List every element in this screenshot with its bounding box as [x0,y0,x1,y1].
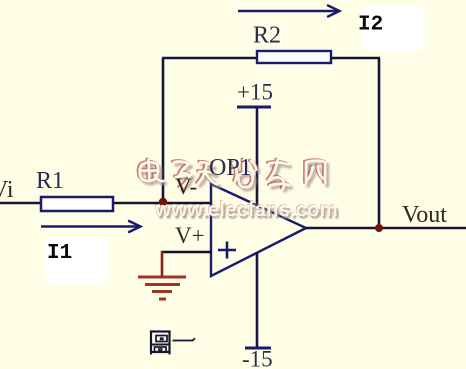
svg-text:www.elecfans.com: www.elecfans.com [154,198,338,221]
junction node at inverting input [159,198,167,206]
wire R1 to inverting input [113,202,212,205]
svg-text:Vi: Vi [0,177,14,203]
watermark url text [154,198,340,224]
figure label dash stroke [173,338,196,340]
svg-text:-15: -15 [242,347,273,369]
power +15 symbol bar [237,106,271,109]
svg-text:V+: V+ [175,223,205,248]
svg-text:R2: R2 [253,23,281,49]
wire feedback top to R2 [162,57,259,60]
svg-text:OP1: OP1 [209,155,252,181]
white patch behind I1 label [45,237,107,283]
resistor R2 [257,51,331,63]
current arrow I1 [41,221,141,232]
power -15 symbol bar [245,347,271,350]
wire output [305,227,466,230]
junction node at output [375,224,383,232]
wire R2 to right corner [331,57,380,60]
svg-text:+15: +15 [237,80,273,105]
current arrow I2 [238,6,340,17]
op-amp non-inverting plus marker [218,242,236,259]
wire +15 to op-amp [256,108,259,206]
wire input from Vi to R1 [0,202,43,205]
wire V+ input to ground corner [161,251,212,254]
svg-text:R1: R1 [36,168,64,194]
figure label icon (glyph box) [151,332,170,355]
wire op-amp to -15 [256,252,259,348]
white patch behind I2 label [361,6,424,51]
svg-text:Vout: Vout [402,202,447,228]
wire feedback right vertical [378,58,381,228]
wire feedback left vertical [162,58,165,202]
svg-text:V-: V- [175,174,197,199]
svg-text:I2: I2 [358,14,383,37]
ground symbol [138,277,186,299]
resistor R1 [41,197,113,211]
op-amp OP1 [211,184,306,276]
svg-text:I1: I1 [47,242,72,265]
wire ground lead vertical [161,251,164,276]
